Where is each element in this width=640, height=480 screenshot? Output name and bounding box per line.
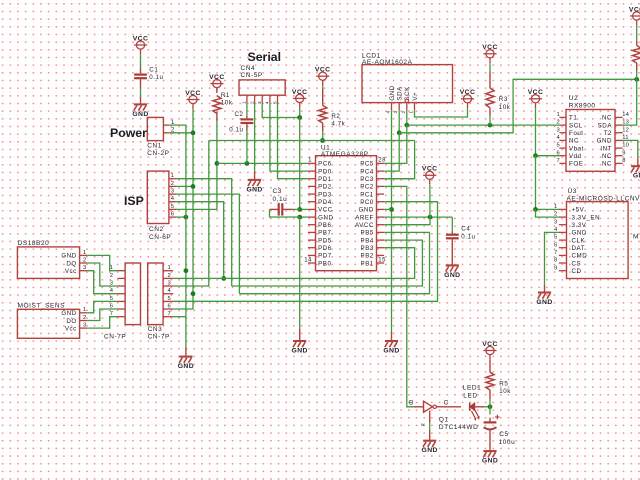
wire: U1 right GND pin: [384, 208, 391, 210]
capacitor C2 top lead: [246, 116, 248, 119]
svg-text:Vbat: Vbat: [569, 145, 584, 152]
svg-text:SDA: SDA: [598, 122, 613, 129]
wire: U2 GND pin11 to ground: [623, 140, 638, 158]
svg-text:CN2: CN2: [149, 226, 164, 233]
wire: SDA to U2 pin13: [623, 79, 637, 125]
svg-text:5: 5: [554, 235, 557, 241]
svg-text:5: 5: [110, 296, 113, 302]
wire: CN1 pin1 GND rail down to ground: [170, 125, 186, 347]
svg-text:5: 5: [272, 101, 277, 104]
svg-text:0.1u: 0.1u: [461, 233, 475, 240]
wire: CN1 pin2 to VCC: [170, 132, 193, 134]
wire: LCD V+ to VCC: [415, 108, 468, 117]
svg-text:PC2: PC2: [360, 184, 374, 191]
wire: VCC drop to U1 VCC pin: [299, 108, 301, 118]
capacitor C3 left lead: [270, 208, 279, 210]
svg-text:VCC: VCC: [482, 44, 498, 51]
wire: U1 PB4 to bus2: [232, 240, 423, 286]
svg-text:R2: R2: [331, 113, 340, 120]
junction: VCC at U2 Vdd: [533, 153, 538, 158]
svg-text:GND: GND: [633, 173, 640, 180]
power VCC symbol (R4): [629, 6, 640, 25]
wire: R1 to RESET: [216, 121, 218, 163]
wire: DS18B20 GND to CN-7P pin1: [87, 255, 117, 270]
svg-text:PB2: PB2: [361, 253, 374, 260]
svg-text:VCC: VCC: [460, 89, 476, 96]
svg-text:10k: 10k: [499, 104, 511, 111]
wire: CN4 pin5 (TXD) to U1 PD1: [278, 103, 308, 179]
svg-text:PD6: PD6: [318, 245, 332, 252]
svg-text:PB1: PB1: [361, 260, 374, 267]
svg-text:T1: T1: [569, 115, 577, 122]
svg-text:4: 4: [171, 196, 175, 202]
svg-text:NC: NC: [602, 153, 612, 160]
svg-text:VCC: VCC: [422, 166, 438, 173]
wire: CN4 pin3 to VCC: [262, 103, 300, 118]
svg-text:GND: GND: [318, 214, 333, 221]
svg-text:12: 12: [622, 127, 629, 133]
svg-text:GND: GND: [292, 348, 308, 355]
resistor R3 10k: [486, 88, 511, 111]
svg-text:VCC: VCC: [292, 89, 308, 96]
svg-text:GND: GND: [444, 272, 460, 279]
svg-text:1: 1: [171, 173, 174, 179]
svg-text:CN3: CN3: [148, 326, 163, 333]
ground symbol (Q1): [422, 441, 438, 454]
wire: U1 PB5 to bus3: [239, 232, 429, 293]
wire: DQ up to U1 PC3: [384, 141, 415, 179]
svg-text:Serial: Serial: [248, 50, 282, 64]
wire: CN4 pin1 (DTR) to C2: [246, 103, 248, 116]
svg-text:3: 3: [171, 189, 174, 195]
svg-text:DTC144WD: DTC144WD: [439, 424, 478, 431]
svg-text:2: 2: [401, 111, 406, 114]
wire: VCC to U2 Vdd: [536, 108, 560, 156]
wire: C1 to GND: [140, 88, 142, 97]
svg-text:INT: INT: [600, 145, 612, 152]
resistor R3 bottom lead: [489, 108, 491, 116]
svg-text:GND: GND: [358, 207, 373, 214]
wire: U1 PC0 to bus4: [173, 202, 437, 302]
IC U2 RX8900 (RTC): [557, 95, 630, 171]
svg-text:4: 4: [557, 135, 561, 141]
svg-text:4.7k: 4.7k: [331, 121, 345, 128]
svg-text:R3: R3: [499, 96, 508, 103]
svg-text:9: 9: [554, 265, 557, 271]
junction: MOSI bus tap: [221, 276, 226, 281]
IC U1 ATMEGA328P: [304, 144, 386, 270]
connector CN1 CN-2P (Power): [147, 117, 175, 156]
svg-text:GND: GND: [572, 230, 587, 237]
power VCC symbol (CN4 pin3): [292, 89, 308, 108]
svg-text:CN4: CN4: [241, 65, 256, 72]
capacitor C5 bottom lead: [489, 430, 491, 450]
svg-text:7: 7: [557, 158, 560, 164]
svg-text:2: 2: [83, 257, 86, 263]
power VCC symbol (C1): [133, 35, 149, 54]
svg-text:LED1: LED1: [463, 385, 481, 392]
svg-text:AE-MICROSD-LLCNV: AE-MICROSD-LLCNV: [567, 195, 640, 202]
wire: CN2 pin6 to GND rail: [176, 216, 186, 218]
ground symbol (U3): [536, 285, 552, 306]
wire: CN4 pin2 to GND: [254, 103, 256, 172]
svg-text:Fout: Fout: [569, 130, 584, 137]
transistor Q1 emitter lead: [429, 431, 431, 441]
svg-text:PC6: PC6: [318, 161, 332, 168]
wire: DQ line (PC3 net): [209, 140, 415, 142]
svg-text:B: B: [409, 400, 414, 407]
svg-text:GND: GND: [61, 310, 76, 317]
svg-text:5: 5: [168, 296, 171, 302]
svg-text:SCK: SCK: [404, 86, 411, 101]
wire: DS18B20 DQ to CN-7P pin3: [87, 263, 117, 286]
svg-text:AE-AQM1602A: AE-AQM1602A: [362, 59, 413, 66]
wire: CN2 pin5 (RESET): [176, 163, 217, 209]
svg-text:GND: GND: [422, 447, 438, 454]
svg-text:2: 2: [110, 273, 113, 279]
wire: DS18B20 Vcc to CN-7P pin4: [87, 271, 117, 294]
connector CN-7P (sensor side): [104, 263, 141, 341]
capacitor C3 right lead: [282, 208, 292, 210]
junction: RESET at R1: [215, 161, 220, 166]
svg-text:Vcc: Vcc: [65, 325, 77, 332]
svg-text:5: 5: [557, 143, 560, 149]
svg-text:1: 1: [110, 265, 113, 271]
wire: U1 PC3 to DQ riser: [384, 178, 415, 180]
svg-text:CN-6P: CN-6P: [149, 234, 171, 241]
svg-text:PD7: PD7: [318, 253, 332, 260]
ground symbol (GND rail): [178, 347, 194, 370]
svg-text:Power: Power: [110, 126, 147, 140]
junction: LED/R5/C5: [488, 404, 493, 409]
svg-text:3.3V: 3.3V: [572, 222, 587, 229]
svg-text:C3: C3: [273, 188, 282, 195]
connector CN4 CN-5P (Serial): [239, 65, 285, 104]
svg-text:T2: T2: [604, 130, 612, 137]
wire: VCC to AREF/AVCC: [429, 185, 431, 217]
svg-text:9: 9: [622, 150, 625, 156]
capacitor C4 top lead: [451, 232, 453, 234]
wire: R3 to SCL: [489, 116, 491, 125]
svg-text:C4: C4: [461, 226, 470, 233]
ground symbol (U2): [631, 158, 640, 179]
power VCC symbol (CN1 pin2): [185, 90, 201, 109]
transistor Q1 base lead: [414, 406, 424, 408]
svg-text:NC: NC: [569, 138, 579, 145]
wire: VCC to R3: [489, 63, 491, 71]
resistor R2 bottom lead: [322, 123, 324, 131]
ground symbol (C5): [482, 451, 498, 465]
svg-text:PC5: PC5: [360, 161, 374, 168]
wire: CN2 pin2 to VCC rail: [176, 185, 193, 187]
power VCC symbol (LCD V+): [460, 89, 476, 108]
wire: CN2 pin4 (MOSI) to bus: [176, 202, 224, 279]
svg-text:1: 1: [83, 307, 86, 313]
junction: SDA at LCD: [397, 130, 402, 135]
svg-text:3: 3: [557, 127, 560, 133]
svg-text:8: 8: [622, 158, 625, 164]
svg-text:CN-2P: CN-2P: [147, 150, 169, 157]
wire: VCC to AVCC pin: [384, 217, 430, 225]
wire: R5 to node: [489, 399, 491, 406]
svg-text:M: M: [633, 234, 639, 241]
junction: VCC at U1: [297, 207, 302, 212]
svg-text:100u: 100u: [499, 439, 516, 446]
svg-text:3.3V_EN: 3.3V_EN: [572, 214, 601, 221]
transistor Q1 DTC144WD: [421, 401, 478, 431]
svg-text:3: 3: [393, 111, 398, 114]
svg-text:DO: DO: [66, 318, 76, 325]
svg-text:6: 6: [110, 303, 113, 309]
svg-text:CS: CS: [572, 260, 582, 267]
wire: MOIST GND to CN-7P pin5: [87, 301, 117, 312]
wire: R4 to SDA: [636, 71, 638, 80]
wire: RESET line to U1 PC6: [217, 162, 308, 164]
resistor R2 top lead: [322, 88, 324, 105]
power VCC symbol (U2 Vdd): [528, 89, 544, 108]
svg-text:C: C: [444, 400, 449, 407]
svg-text:VCC: VCC: [315, 67, 331, 74]
wire: U1 PB3 to bus1: [173, 248, 414, 279]
svg-text:4: 4: [110, 288, 114, 294]
resistor R5 10k: [486, 372, 511, 395]
svg-text:10k: 10k: [221, 100, 233, 107]
svg-text:4: 4: [168, 288, 172, 294]
svg-text:C2: C2: [234, 111, 243, 118]
wire: LCD GND vertical to U1 GND: [391, 110, 393, 332]
svg-text:PD2: PD2: [318, 184, 332, 191]
wire: CN4 pin4 (RXD) to U1 PD0: [270, 103, 308, 171]
wire: MOIST DO to CN-7P pin6: [87, 309, 117, 321]
svg-text:3: 3: [83, 323, 86, 329]
junction: GND at CN2 pin6: [184, 215, 189, 220]
wire: C3 left loop to GND: [270, 209, 300, 217]
junction: RESET at C2: [245, 161, 250, 166]
svg-text:GND: GND: [178, 363, 194, 370]
svg-text:C5: C5: [499, 431, 508, 438]
wire: LED to R5/C5 node: [485, 406, 490, 408]
wire: CN2 pin3 (SCK) to bus: [176, 194, 239, 294]
wire: U1 GND down to ground: [299, 217, 301, 328]
wire: VCC rail to U1: [299, 118, 301, 210]
svg-text:U2: U2: [569, 95, 578, 102]
svg-text:PC4: PC4: [360, 168, 374, 175]
connector CN2 CN-6P (ISP): [147, 171, 176, 241]
resistor R4 bottom lead: [636, 63, 638, 71]
svg-text:1: 1: [242, 101, 247, 104]
capacitor C5 100u (electrolytic): [484, 415, 516, 446]
svg-text:GND: GND: [536, 299, 552, 306]
svg-text:6: 6: [554, 242, 557, 248]
ground symbol (C4): [444, 258, 460, 279]
wire: SCL bus to U2: [407, 124, 560, 126]
svg-text:PC1: PC1: [360, 191, 374, 198]
ground symbol (CN4 pin2): [246, 172, 262, 194]
power VCC pin stub (R1): [216, 89, 218, 93]
svg-text:+5V: +5V: [572, 207, 585, 214]
capacitor C2 0.1u: [241, 119, 254, 123]
wire: MOIST Vcc to CN-7P pin7: [87, 317, 117, 328]
svg-text:VCC: VCC: [209, 74, 225, 81]
svg-text:1: 1: [83, 250, 86, 256]
svg-text:1: 1: [308, 158, 312, 164]
wire: DQ down to CN3 pin3: [173, 141, 209, 287]
svg-text:PC3: PC3: [360, 176, 374, 183]
junction: VCC at U3 pin1: [533, 207, 538, 212]
svg-text:10: 10: [622, 143, 629, 149]
svg-text:GND: GND: [61, 253, 76, 260]
svg-text:VCC: VCC: [482, 341, 498, 348]
svg-text:PC0: PC0: [360, 199, 374, 206]
resistor R3 top lead: [489, 72, 491, 89]
wire: VCC vertical rail (CN1/CN2/CN3): [173, 109, 193, 309]
resistor R1 bottom lead: [216, 112, 218, 121]
svg-text:MOIST_SENS: MOIST_SENS: [18, 303, 66, 310]
svg-text:GND: GND: [246, 186, 262, 193]
svg-text:SCL: SCL: [569, 122, 583, 129]
svg-text:CLK: CLK: [572, 237, 586, 244]
svg-text:VCC: VCC: [185, 90, 201, 97]
junction: GND rail at CN3 pin1: [184, 268, 189, 273]
wire: SDA bus: [399, 79, 637, 133]
svg-text:VCC: VCC: [133, 35, 149, 42]
svg-text:CN-7P: CN-7P: [104, 334, 126, 341]
wire: VCC to U3 3.3V_EN: [536, 209, 559, 217]
svg-text:VCC: VCC: [629, 6, 640, 13]
wire: AREF to C4: [451, 217, 453, 233]
svg-text:PB6: PB6: [318, 222, 331, 229]
svg-text:ATMEGA328P: ATMEGA328P: [321, 151, 369, 158]
display LCD1 AE-AQM1602A: [362, 52, 453, 113]
svg-text:7: 7: [554, 250, 557, 256]
svg-text:DAT: DAT: [572, 245, 586, 252]
svg-text:DQ: DQ: [66, 260, 76, 267]
svg-text:14: 14: [304, 257, 312, 263]
svg-text:GND: GND: [132, 111, 148, 118]
svg-text:7: 7: [168, 311, 171, 317]
svg-text:GND: GND: [383, 348, 399, 355]
junction: VCC at CN4 pin3: [297, 115, 302, 120]
junction: SDA at R4: [634, 77, 639, 82]
svg-text:2: 2: [249, 101, 254, 104]
LED LED1: [463, 385, 481, 421]
wire: VCC to R4: [636, 25, 638, 40]
wire: node to C5: [489, 407, 491, 415]
svg-text:1: 1: [557, 112, 560, 118]
svg-text:Q1: Q1: [439, 417, 449, 424]
svg-text:FOE: FOE: [569, 161, 583, 168]
resistor R4 (SDA pullup): [633, 46, 640, 64]
svg-text:C1: C1: [149, 66, 158, 73]
power VCC symbol (R1): [209, 74, 225, 93]
svg-text:1: 1: [168, 265, 171, 271]
svg-text:RX8900: RX8900: [569, 102, 596, 109]
svg-text:15: 15: [378, 257, 386, 263]
wire: VCC down to U3: [535, 156, 537, 210]
wire: SDA riser to U1 PC4: [384, 133, 399, 171]
svg-text:5: 5: [171, 204, 174, 210]
svg-text:PB4: PB4: [361, 237, 374, 244]
capacitor C2 bottom lead: [246, 124, 248, 130]
ground symbol (U1 right): [383, 332, 399, 355]
svg-text:3: 3: [168, 280, 171, 286]
capacitor C4 0.1u: [446, 226, 476, 241]
wire: R2 to DQ line: [322, 131, 324, 140]
junction: VCC at CN1 pin2: [191, 130, 196, 135]
svg-text:CD: CD: [572, 268, 582, 275]
svg-text:0.1u: 0.1u: [149, 74, 163, 81]
svg-text:3: 3: [257, 101, 262, 104]
wire: SCL riser to U1 PC5: [384, 125, 407, 163]
sensor MOIST SENS: [17, 303, 87, 339]
capacitor C1 bottom lead: [140, 79, 142, 88]
wire: VCC to U3 +5V: [536, 208, 559, 210]
wire: Q1 emitter: [429, 423, 431, 431]
power VCC symbol (R5): [482, 341, 498, 360]
junction: SCL at R3: [488, 123, 493, 128]
wire: C2 to RESET: [246, 131, 248, 164]
resistor R2 4.7k: [319, 105, 346, 127]
svg-text:U3: U3: [568, 188, 577, 195]
svg-text:2: 2: [83, 315, 86, 321]
svg-text:0,1u: 0,1u: [273, 196, 288, 203]
svg-text:28: 28: [378, 158, 386, 164]
wire: VCC to R2: [322, 86, 324, 89]
capacitor C4 bottom lead: [451, 239, 453, 257]
svg-text:NC: NC: [602, 161, 612, 168]
wire: Q1 collector to LED (red): [441, 406, 461, 408]
svg-text:ISP: ISP: [124, 194, 144, 208]
resistor R5 bottom lead: [489, 390, 491, 399]
svg-text:PB0: PB0: [318, 260, 331, 267]
sensor DS18B20: [17, 240, 87, 278]
wire: U3 GND pin to ground: [545, 232, 559, 285]
svg-text:PB7: PB7: [318, 230, 331, 237]
wire: LCD SCK down: [406, 110, 408, 125]
svg-text:Vcc: Vcc: [65, 268, 77, 275]
svg-text:8: 8: [554, 258, 557, 264]
svg-text:10k: 10k: [499, 388, 511, 395]
power VCC symbol (AVCC): [422, 166, 438, 185]
junction: VCC at CN2 pin2: [191, 184, 196, 189]
svg-text:PD3: PD3: [318, 191, 332, 198]
svg-text:V+: V+: [412, 92, 419, 101]
svg-text:GND: GND: [597, 138, 612, 145]
svg-text:13: 13: [622, 120, 629, 126]
svg-text:2: 2: [171, 181, 174, 187]
svg-text:3: 3: [110, 280, 113, 286]
svg-text:CMD: CMD: [572, 253, 588, 260]
svg-text:1: 1: [409, 111, 414, 114]
wire: U1 AREF line: [384, 216, 452, 218]
svg-text:PD4: PD4: [318, 199, 332, 206]
svg-text:R1: R1: [221, 92, 230, 99]
connector CN3 CN-7P: [148, 263, 174, 341]
svg-text:6: 6: [171, 212, 174, 218]
svg-text:6: 6: [168, 303, 171, 309]
wire: CN3 pin7 to GND rail: [173, 316, 186, 318]
svg-text:Vdd: Vdd: [569, 153, 582, 160]
svg-text:PD1: PD1: [318, 176, 332, 183]
svg-text:4: 4: [386, 111, 391, 114]
svg-text:2: 2: [168, 273, 171, 279]
svg-text:CN-5P: CN-5P: [241, 72, 263, 79]
svg-text:4: 4: [265, 101, 270, 104]
svg-text:NC: NC: [602, 115, 612, 122]
wire: U1 PC2 to LED driver: [384, 186, 414, 406]
junction: DQ at R2: [320, 138, 325, 143]
power VCC symbol (R3): [482, 44, 498, 63]
